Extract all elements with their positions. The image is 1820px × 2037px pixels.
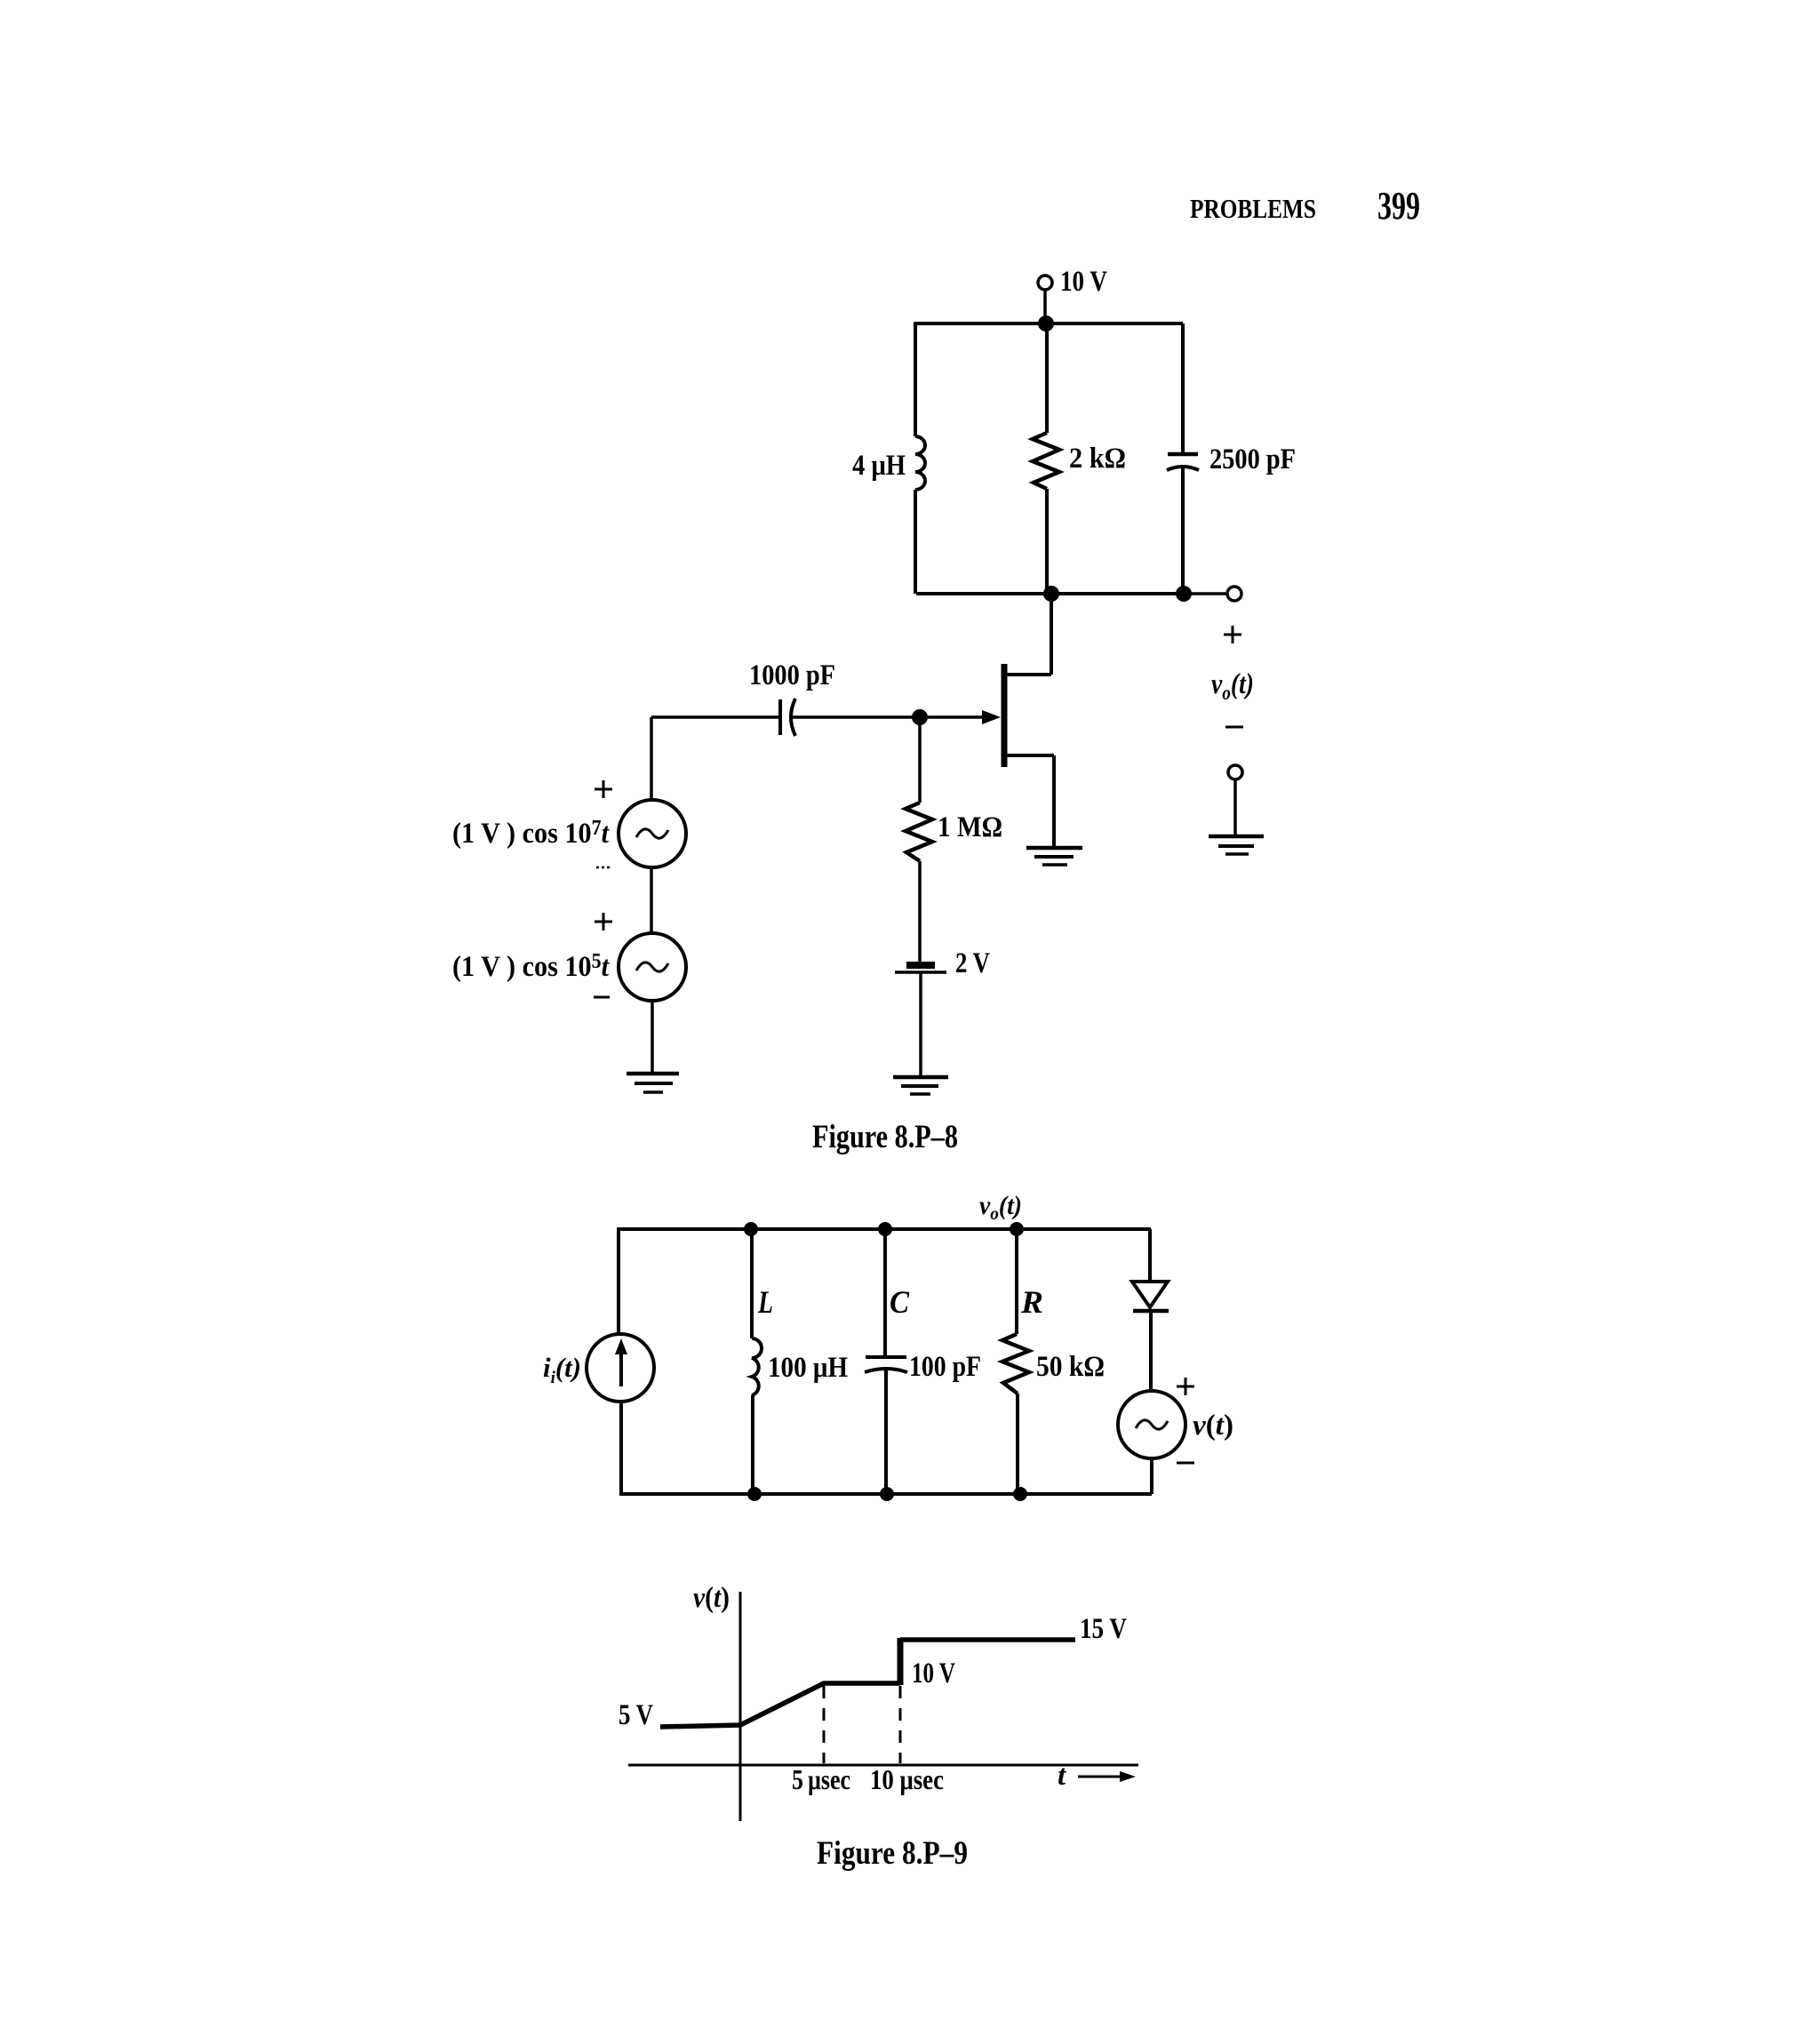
graph t axis xyxy=(628,1764,1138,1767)
battery 2 V xyxy=(895,947,990,979)
svg-text:PROBLEMS: PROBLEMS xyxy=(1190,193,1316,224)
wire gate node down xyxy=(918,717,922,803)
svg-text:10 μsec: 10 μsec xyxy=(870,1763,944,1795)
node C bottom xyxy=(880,1487,894,1501)
wire R branch lower xyxy=(1016,1394,1019,1494)
wire inductor branch lower xyxy=(914,490,917,594)
gate arrowhead xyxy=(982,710,1001,724)
svg-text:vo(t): vo(t) xyxy=(1211,668,1254,704)
dashed line 5usec xyxy=(823,1686,826,1763)
wire top rail fig9 xyxy=(617,1227,1151,1231)
dashed line 10usec xyxy=(899,1686,902,1763)
wire gate lead right xyxy=(792,715,984,719)
svg-text:399: 399 xyxy=(1377,184,1420,228)
minus output xyxy=(1225,726,1243,729)
supply terminal 10 V xyxy=(1038,266,1107,298)
wire L branch lower xyxy=(751,1395,754,1494)
resistor 50 kOhm xyxy=(1002,1334,1105,1394)
capacitor 1000 pF xyxy=(749,659,835,736)
plus source 1 xyxy=(595,780,612,798)
wire drain vertical xyxy=(1050,594,1053,675)
ground FET source xyxy=(1026,848,1082,865)
wire resistor to battery xyxy=(918,861,922,963)
minus source 2 xyxy=(594,996,610,999)
ground battery xyxy=(893,1077,948,1094)
svg-text:ii(t): ii(t) xyxy=(543,1352,581,1387)
svg-text:vo(t): vo(t) xyxy=(979,1191,1022,1224)
svg-text:4 μH: 4 μH xyxy=(852,450,906,482)
transistor FET bar xyxy=(1002,664,1008,767)
svg-text:10 V: 10 V xyxy=(912,1658,955,1690)
source (1V)cos 10^5 t xyxy=(452,933,686,1001)
svg-text:50 kΩ: 50 kΩ xyxy=(1036,1351,1105,1383)
wire supply to top rail xyxy=(1043,290,1047,324)
minus v(t) xyxy=(1177,1462,1194,1465)
wire top rail xyxy=(914,322,1183,325)
wire C branch lower xyxy=(884,1370,888,1494)
svg-text:2 kΩ: 2 kΩ xyxy=(1069,443,1126,475)
resistor 1 MOhm xyxy=(906,803,1002,861)
node L bottom xyxy=(747,1487,762,1501)
svg-text:(1 V ) cos 107t: (1 V ) cos 107t xyxy=(452,817,610,850)
plus v(t) xyxy=(1177,1378,1194,1395)
svg-text:10 V: 10 V xyxy=(1060,266,1107,298)
wire R branch upper xyxy=(1015,1229,1018,1334)
minus mark source 1 xyxy=(596,867,610,869)
wire capacitor branch lower xyxy=(1181,468,1185,594)
output terminal upper xyxy=(1227,587,1241,601)
ground output xyxy=(1209,836,1264,854)
svg-text:v(t): v(t) xyxy=(1193,1410,1233,1442)
inductor 4 uH xyxy=(852,436,925,490)
svg-text:5 V: 5 V xyxy=(619,1699,653,1731)
node L top xyxy=(744,1222,758,1236)
wire resistor branch upper xyxy=(1045,324,1049,433)
inductor 100 uH xyxy=(752,1338,848,1395)
wire bottom rail of tank xyxy=(916,592,1184,595)
output terminal lower xyxy=(1228,765,1242,779)
svg-text:Figure 8.P–9: Figure 8.P–9 xyxy=(817,1835,968,1872)
node C top xyxy=(878,1222,892,1236)
source v(t) xyxy=(1118,1391,1233,1458)
wire vsource lower xyxy=(1150,1458,1153,1494)
svg-text:15 V: 15 V xyxy=(1080,1613,1127,1645)
wire gate lead left xyxy=(651,715,778,719)
ground sources xyxy=(627,1074,679,1092)
svg-text:100 pF: 100 pF xyxy=(909,1351,981,1383)
capacitor 100 pF xyxy=(865,1351,981,1383)
plus output xyxy=(1224,626,1241,643)
svg-text:L: L xyxy=(757,1284,773,1320)
graph label t arrow xyxy=(1058,1760,1136,1792)
svg-text:100 μH: 100 μH xyxy=(768,1352,848,1384)
svg-text:C: C xyxy=(890,1284,910,1320)
wire L branch upper xyxy=(750,1229,754,1338)
wire source 2 to ground xyxy=(651,1001,654,1074)
wire terminal to ground xyxy=(1233,779,1237,836)
wire between sources xyxy=(650,867,653,933)
svg-text:5 μsec: 5 μsec xyxy=(792,1763,850,1795)
wire diode branch upper xyxy=(1148,1229,1152,1282)
wire to output terminal xyxy=(1191,592,1227,595)
svg-text:2 V: 2 V xyxy=(955,947,990,979)
svg-text:2500 pF: 2500 pF xyxy=(1209,443,1296,475)
graph v axis xyxy=(739,1592,742,1821)
svg-text:R: R xyxy=(1020,1284,1043,1320)
wire inductor branch upper xyxy=(914,324,917,436)
wire source lead xyxy=(1005,755,1054,848)
wire resistor branch lower xyxy=(1045,489,1049,594)
resistor 2 kOhm xyxy=(1033,433,1126,489)
svg-text:1 MΩ: 1 MΩ xyxy=(938,811,1002,843)
diode D xyxy=(1132,1282,1169,1311)
wire left branch lower xyxy=(619,1402,623,1494)
node output junction xyxy=(1176,586,1192,602)
node R top xyxy=(1010,1222,1024,1236)
capacitor 2500 pF xyxy=(1167,443,1296,475)
wire bottom rail fig9 xyxy=(619,1492,1152,1496)
svg-text:Figure 8.P–8: Figure 8.P–8 xyxy=(812,1119,958,1155)
wire left branch upper xyxy=(617,1229,620,1335)
graph waveform xyxy=(660,1638,1075,1727)
wire C branch upper xyxy=(883,1229,887,1356)
wire drain lead xyxy=(1005,673,1051,676)
svg-text:t: t xyxy=(1058,1760,1066,1792)
svg-text:(1 V ) cos 105t: (1 V ) cos 105t xyxy=(452,950,610,983)
node R bottom xyxy=(1013,1487,1027,1501)
node gate junction xyxy=(912,709,928,725)
wire battery to ground xyxy=(919,973,922,1077)
plus source 2 xyxy=(595,913,612,931)
wire diode to vsource xyxy=(1149,1313,1153,1392)
node top rail junction xyxy=(1038,316,1054,332)
node drain junction xyxy=(1043,586,1059,602)
wire capacitor branch upper xyxy=(1181,324,1185,454)
svg-text:v(t): v(t) xyxy=(693,1582,730,1614)
svg-text:1000 pF: 1000 pF xyxy=(749,659,835,691)
wire input corner down xyxy=(650,717,653,801)
source (1V)cos 10^7 t xyxy=(452,800,686,867)
current source ii(t) xyxy=(543,1334,654,1402)
